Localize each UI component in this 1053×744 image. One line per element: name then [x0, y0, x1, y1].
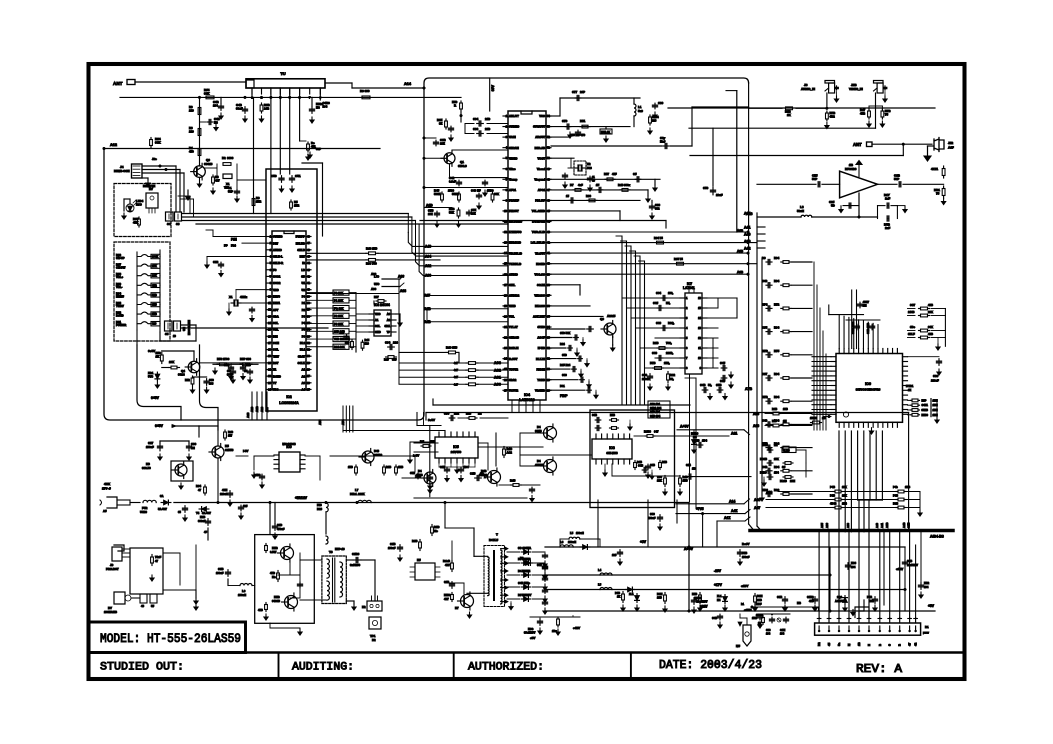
IC7 left pin 5 [680, 337, 685, 339]
svg-text:SL2B: SL2B [783, 449, 790, 453]
resistor R68 below IC7 [667, 372, 669, 375]
svg-text:VOL-: VOL- [116, 285, 123, 289]
svg-text:BVRPP: BVRPP [296, 235, 306, 239]
resistor R70 mid [277, 571, 279, 574]
bundle verticals down [407, 214, 409, 233]
model box [89, 622, 246, 653]
svg-text:B: B [878, 644, 882, 646]
svg-text:TV.DBL/D: TV.DBL/D [509, 262, 521, 266]
svg-text:25K: 25K [774, 457, 779, 461]
IC9 left pin 2 [274, 459, 279, 461]
wire pin52 [546, 136, 570, 138]
svg-text:VP.IN: VP.IN [509, 135, 516, 139]
svg-text:9O7: 9O7 [910, 303, 916, 307]
QFP IC6 body [836, 354, 903, 423]
svg-text:R64: R64 [196, 484, 201, 488]
capacitor 4X17 1M [859, 302, 861, 304]
resistor R54 330 [240, 363, 243, 365]
svg-text:9BLF: 9BLF [908, 332, 915, 336]
audio processor IC7 body [685, 293, 702, 374]
bus vertical right 2 [756, 213, 758, 526]
svg-text:A27: A27 [265, 406, 269, 412]
capacitor C83 near A21 [697, 444, 699, 446]
svg-text:220uF: 220uF [931, 379, 939, 383]
T primary coil [488, 557, 489, 596]
resistor R45 560K [441, 192, 443, 194]
resistor R38 750 line [366, 259, 369, 261]
svg-text:R38 750: R38 750 [366, 262, 377, 266]
svg-text:SECAM: SECAM [509, 146, 520, 150]
svg-text:47D: 47D [270, 571, 275, 575]
inductor L3 on rail [560, 545, 573, 547]
wire J6 down [826, 93, 828, 108]
IC7 left pin 3 [680, 317, 685, 319]
svg-text:AF.OUT: AF.OUT [535, 135, 545, 139]
AC inlet symbol [107, 497, 117, 508]
wire A39 [757, 240, 765, 242]
svg-text:470uF: 470uF [277, 527, 285, 531]
IC2 left pin 16 [267, 335, 272, 337]
svg-text:MODEL: HT-555-26LAS59: MODEL: HT-555-26LAS59 [100, 632, 241, 646]
svg-text:P4b: P4b [893, 485, 898, 489]
inductor L5 100uH top [569, 537, 580, 539]
CRT connector pin 1 [818, 618, 820, 624]
ground RB1 [943, 199, 945, 202]
svg-text:R9B: R9B [412, 539, 417, 543]
svg-text:ZL1: ZL1 [629, 592, 634, 596]
svg-text:P3: P3 [302, 314, 306, 318]
svg-text:GNDAB: GNDAB [509, 336, 519, 340]
title divider 3 [630, 653, 632, 680]
svg-text:COL: COL [273, 348, 279, 352]
IC2 right pin 26 [306, 382, 311, 384]
dots rail B [356, 501, 359, 504]
svg-text:K7: K7 [455, 606, 459, 610]
svg-text:SYS/OUT: SYS/OUT [533, 125, 545, 129]
IC6 left pin 4 [831, 370, 836, 372]
IC2 right pin 46 [306, 249, 311, 251]
svg-text:P0: P0 [302, 294, 306, 298]
svg-text:C7B: C7B [428, 209, 433, 213]
wire IC2 pin2 left [242, 242, 267, 244]
svg-text:C40: C40 [471, 189, 476, 193]
diode D11 [626, 589, 628, 591]
connector J2a [166, 212, 174, 221]
svg-text:556K: 556K [452, 192, 459, 196]
svg-text:C1B6: C1B6 [807, 595, 814, 599]
capacitor C32 [249, 369, 251, 371]
regulator IC9 body [279, 452, 300, 472]
IC9 surroundings wires [254, 455, 274, 457]
svg-text:U5B6: U5B6 [140, 510, 147, 514]
svg-text:33K: 33K [494, 192, 499, 196]
IC5 bottom pin 7 [474, 458, 476, 463]
IC5 top pin 6 [468, 432, 470, 437]
resistor R8B vertical [261, 103, 263, 105]
junction dots on AGC line [198, 96, 201, 99]
IC2 right pin 35 [306, 322, 311, 324]
svg-text:5a: 5a [837, 642, 841, 646]
dots on video bus verticals [747, 231, 750, 234]
svg-text:10#: 10# [243, 504, 248, 508]
svg-text:A30: A30 [371, 287, 377, 291]
svg-text:C4B KM+: C4B KM+ [518, 581, 530, 585]
IC6 right pin 4 [903, 370, 908, 372]
svg-text:SB: SB [301, 275, 305, 279]
svg-text:POWER: POWER [116, 323, 126, 327]
IC6 bottom pin 4 [853, 422, 855, 427]
IC2 left pin 7 [267, 275, 272, 277]
ground below IC3 [399, 320, 401, 323]
IC2 left pin 18 [267, 349, 272, 351]
wire bundle IC2 area down to IC5 [342, 406, 344, 432]
video out route line [551, 145, 662, 147]
svg-text:A0: A0 [387, 312, 391, 316]
parts below IC8 [664, 476, 666, 479]
svg-text:J3+: J3+ [152, 157, 157, 161]
IC7 right pin 11 [702, 347, 707, 349]
svg-text:56,: 56, [708, 383, 712, 387]
svg-text:220: 220 [189, 109, 194, 113]
resistor R58 102 [573, 189, 575, 191]
IC4 right pin 33 [546, 337, 551, 339]
IC2 left pin 21 [267, 369, 272, 371]
svg-text:+5V: +5V [530, 636, 535, 640]
svg-text:IF.GND: IF.GND [536, 262, 545, 266]
svg-text:R82: R82 [670, 373, 675, 377]
IC8 top pin 2 [601, 434, 603, 439]
svg-text:1D: 1D [692, 467, 696, 471]
resistor R43 at Q9 base [511, 484, 514, 486]
capacitor C96 right of IC7 r2 [721, 377, 723, 379]
svg-text:P1B: P1B [615, 591, 620, 595]
vertical x905 [904, 547, 906, 611]
IC7 right pin 9 [702, 367, 707, 369]
svg-text:5K6: 5K6 [152, 293, 157, 297]
IC5 top pin 7 [474, 432, 476, 437]
IC4 right pin 29 [546, 379, 551, 381]
ladder row wire 10 [792, 470, 812, 472]
resistor R7B 4B2 under J6 [826, 111, 828, 113]
svg-text:13M: 13M [790, 479, 795, 483]
svg-text:BL2: BL2 [300, 341, 306, 345]
svg-text:VOAMD: VOAMD [535, 388, 545, 392]
IC6 left pin 12 [831, 409, 836, 411]
shield box around IC8 section [590, 410, 675, 508]
capacitor C50 in box [281, 176, 283, 179]
wire opamp output [878, 183, 898, 185]
svg-text:P4B: P4B [830, 485, 835, 489]
svg-text:43M: 43M [222, 488, 228, 492]
svg-text:C4B: C4B [700, 383, 705, 387]
resistor R59 row47 [620, 189, 622, 191]
svg-text:12K: 12K [152, 274, 157, 278]
svg-text:P/N: P/N [231, 238, 237, 242]
IC4 right pin 35 [546, 315, 551, 317]
svg-text:S5: S5 [165, 332, 169, 336]
tuner TU box [246, 79, 325, 88]
svg-text:FS: FS [273, 268, 277, 272]
svg-text:UOUT2: UOUT2 [509, 388, 519, 392]
zener cluster bottom right [699, 593, 701, 596]
resistor R64 on line [656, 242, 658, 244]
wires A14 A42 A12 [676, 503, 744, 505]
svg-text:IC4: IC4 [524, 393, 531, 397]
bundle bend to IC5 [343, 430, 445, 432]
svg-text:ACK.DET: ACK.DET [533, 315, 545, 319]
svg-text:SH-M88: SH-M88 [606, 451, 617, 455]
wire bus drop 3 [848, 532, 850, 618]
base rail y177 [450, 177, 509, 179]
IC6 top pin 5 [858, 349, 860, 354]
svg-text:100uF: 100uF [146, 445, 154, 449]
svg-text:100,: 100, [668, 291, 674, 295]
IC2 left pin 9 [267, 289, 272, 291]
svg-text:P.STD: P.STD [116, 314, 124, 318]
LED D4 indicator [126, 204, 134, 212]
svg-text:33uF: 33uF [227, 373, 233, 377]
svg-text:P4B: P4B [867, 595, 872, 599]
svg-text:A7B: A7B [745, 387, 753, 391]
IC2 left pin 3 [267, 249, 272, 251]
IC6 right pin 10 [903, 399, 908, 401]
IC6 left pin 11 [831, 404, 836, 406]
IC5 top pin 4 [456, 432, 458, 437]
svg-text:E2B: E2B [200, 515, 205, 519]
CRT connector pin 11 [915, 618, 917, 624]
IC2 left pin 24 [267, 388, 272, 390]
wire Q1 collector to IC4 [452, 149, 508, 151]
ladder row wire 11 [792, 493, 812, 495]
svg-text:TP1: TP1 [370, 634, 376, 638]
connector TP1 [367, 601, 382, 611]
svg-text:47B: 47B [809, 599, 814, 603]
SAW filter X1 [223, 174, 232, 179]
svg-text:B43: B43 [374, 449, 379, 453]
ladder row resistor R64 23K [781, 400, 783, 402]
svg-text:A35: A35 [820, 523, 824, 528]
ground C76 [569, 132, 571, 135]
svg-text:E7B9: E7B9 [922, 413, 929, 417]
TP1 plug circle [369, 617, 381, 629]
svg-text:PDL/AF: PDL/AF [535, 199, 545, 203]
svg-text:R4B 680x: R4B 680x [618, 183, 631, 187]
svg-text:47: 47 [198, 488, 202, 492]
resistors right cluster IC9 [383, 465, 385, 467]
svg-text:820: 820 [152, 322, 157, 326]
capacitor C66 392 [651, 204, 653, 206]
IC3 left pin 1 [369, 313, 374, 315]
resistor R7B2 [265, 603, 267, 605]
row pin45 [546, 210, 620, 212]
resistor R91 smps2 [431, 525, 433, 528]
svg-text:AO2: AO2 [494, 368, 501, 372]
svg-text:39K: 39K [155, 141, 161, 145]
svg-text:+17V: +17V [714, 583, 723, 587]
capacitor C9B right [904, 560, 906, 562]
capacitor C13 under IC2 left [220, 262, 222, 264]
IC4 left pin 22 [503, 337, 508, 339]
svg-text:C5B: C5B [410, 472, 415, 475]
svg-text:R72: R72 [774, 302, 780, 306]
resistor R86 647 [645, 435, 647, 437]
IC6 left pin 5 [831, 375, 836, 377]
svg-text:B7: B7 [570, 183, 574, 187]
resistor row 144B 23K [919, 315, 921, 317]
svg-text:SELB-R: SELB-R [273, 261, 283, 265]
IC8 bottom pin 5 [617, 459, 619, 464]
svg-text:A12: A12 [110, 143, 117, 147]
wire A21 [690, 435, 729, 437]
ladder row wire 7 [792, 400, 812, 402]
capacitor C92 IC7 pin3 [661, 327, 663, 329]
svg-text:C49: C49 [762, 465, 768, 469]
node dot rail [217, 501, 220, 504]
svg-text:A42: A42 [744, 247, 751, 251]
svg-text:0738.9: 0738.9 [458, 164, 467, 168]
svg-text:C49: C49 [762, 418, 768, 422]
resistor 4K7 row AO3 [466, 362, 469, 364]
svg-text:C9B: C9B [697, 596, 702, 600]
svg-text:H-T/B: H-T/B [538, 346, 545, 350]
IC6 left pin 2 [831, 361, 836, 363]
transistor Q4 9014 [188, 361, 200, 373]
IC6 right pin 5 [903, 375, 908, 377]
capacitor C30 Q9 [531, 487, 533, 489]
svg-text:R: R [454, 104, 456, 108]
svg-text:C50: C50 [271, 174, 277, 178]
IC8 bottom pin 1 [595, 459, 597, 464]
svg-text:220R,: 220R, [666, 351, 673, 355]
cap C7O row above IC5 [449, 417, 451, 419]
CRT connector pin 2 [828, 618, 830, 624]
IC5 bottom pin 6 [468, 458, 470, 463]
svg-text:YUL.S/H/D: YUL.S/H/D [532, 209, 545, 213]
svg-text:C9B: C9B [907, 559, 912, 563]
T3 primary coil [327, 559, 329, 578]
IC2 left lower caps [230, 365, 232, 367]
wire right rail to bus [908, 413, 910, 531]
IC4 left pin 17 [503, 284, 508, 286]
svg-text:B.OUT: B.OUT [509, 357, 518, 361]
wire Q1 emitter rail [424, 157, 444, 159]
svg-text:R4B: R4B [466, 412, 471, 416]
IC6 top pin 11 [887, 349, 889, 354]
svg-text:A10: A10 [260, 406, 264, 412]
ladder row resistor R64 16K [781, 377, 783, 379]
svg-text:K1B: K1B [274, 595, 280, 599]
svg-text:A09: A09 [766, 491, 772, 495]
IC9 left pin 3 [274, 463, 279, 465]
caps above IC8 [595, 419, 597, 421]
resistor R39 8K2 [151, 283, 160, 287]
svg-text:GND: GND [375, 330, 381, 334]
svg-text:T: T [496, 533, 498, 537]
svg-text:YOBB: YOBB [537, 378, 545, 382]
ground loop right [897, 205, 905, 207]
wire A04 to IC4 [412, 242, 508, 256]
svg-text:BL1: BL1 [300, 348, 306, 352]
resistor R85 220 right [649, 115, 651, 117]
svg-text:R25 R24: R25 R24 [560, 363, 571, 367]
svg-text:R6 330: R6 330 [360, 89, 370, 93]
IC2 right pin 30 [306, 355, 311, 357]
capacitor C41 dangle [458, 180, 460, 182]
capacitor C1 56P [236, 176, 238, 189]
svg-text:100uF: 100uF [388, 546, 396, 550]
svg-text:R64 75: R64 75 [654, 236, 663, 240]
vcc arrow opamp [856, 161, 862, 165]
IC6 left pin 8 [831, 389, 836, 391]
capacitor C4B NF [478, 193, 480, 195]
second right vertical [736, 91, 738, 232]
IC4 right pin 41 [546, 252, 551, 254]
wire bus drop 2 [828, 532, 830, 618]
ladder row resistor R62 86K [781, 493, 783, 495]
IC6 top pin 12 [892, 349, 894, 354]
capacitor C100 rail [619, 550, 621, 553]
wire IC2 pin4 left [207, 255, 267, 257]
resistor R64 47 [204, 485, 206, 487]
svg-text:B+9V: B+9V [742, 542, 749, 546]
caps on +5V rail [719, 614, 721, 616]
svg-text:1Z: 1Z [908, 388, 912, 392]
svg-text:56,: 56, [670, 377, 674, 381]
IC2 left pin 23 [267, 382, 272, 384]
resistor R4 470 [199, 148, 201, 150]
small parts left of CRT conn [762, 616, 764, 618]
svg-text:8Z: 8Z [439, 122, 443, 126]
svg-text:1O2: 1O2 [454, 412, 459, 416]
wire IC2 pin to A33 [306, 293, 399, 295]
svg-text:18Z: 18Z [471, 212, 476, 216]
capacitor C1B 100uF [399, 545, 401, 548]
IC2 right pin 48 [306, 236, 311, 238]
svg-text:KEY1: KEY1 [273, 301, 281, 305]
svg-text:M#: M# [736, 644, 740, 648]
IC2 right pin 42 [306, 275, 311, 277]
svg-text:A1: A1 [302, 368, 306, 372]
CRT connector pin 8 [889, 618, 891, 624]
svg-text:1BB: 1BB [398, 465, 403, 469]
svg-text:A/B4-B8: A/B4-B8 [930, 535, 944, 539]
IC7 left pin 4 [680, 327, 685, 329]
gnd below QFP [871, 428, 873, 431]
IC2 right pin 27 [306, 375, 311, 377]
svg-text:C7Z: C7Z [471, 208, 476, 212]
five video bus lines IC4 to right [546, 231, 748, 233]
cap row C64 21D [477, 123, 480, 125]
IC6 right pin 11 [903, 404, 908, 406]
IC4 left pin 2 [503, 126, 508, 128]
IC4 left pin 12 [503, 231, 508, 233]
svg-text:+B\/12V: +B\/12V [295, 496, 308, 500]
svg-text:1M: 1M [774, 443, 778, 447]
svg-text:SDA: SDA [273, 314, 279, 318]
transistor Q7 smps switch [461, 595, 474, 608]
title divider 2 [453, 653, 455, 680]
svg-text:A#: A# [103, 509, 107, 513]
tuner pin 7 [309, 88, 311, 94]
A12 jog down [716, 521, 718, 547]
ground under plug [927, 146, 929, 156]
wires above IC5 [417, 425, 441, 427]
svg-text:EC3: EC3 [851, 561, 857, 565]
IC8 top pin 4 [612, 434, 614, 439]
svg-text:FU2: FU2 [142, 506, 148, 510]
svg-text:B3: B3 [520, 556, 524, 560]
ground C2J [840, 207, 842, 210]
